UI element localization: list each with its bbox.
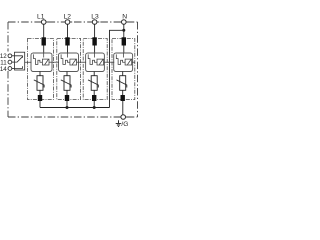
- enclosure border left: [7, 22, 9, 52]
- wire module 4 box to varistor: [122, 72, 124, 76]
- wire varistor 4 to terminal: [122, 90, 124, 95]
- terminal contact bottom module 2: [65, 95, 69, 101]
- wire module 1 to bus: [39, 101, 41, 108]
- wire module 1 box to varistor: [39, 72, 41, 76]
- SPD module box 4: [114, 53, 133, 72]
- wire module 1 box to outline right: [49, 61, 59, 63]
- varistor icon module 4: [125, 59, 132, 65]
- terminal L1: [39, 21, 48, 23]
- wire 11 to FM box: [12, 61, 15, 63]
- wire module 2 box to varistor: [66, 72, 68, 76]
- wire module 4 box to outline right: [132, 61, 135, 63]
- terminal contact bottom module 3: [92, 95, 96, 101]
- wire module 3 box to varistor: [93, 72, 95, 76]
- wire L2 drop: [67, 24, 69, 53]
- terminal contact top module 1: [42, 37, 46, 45]
- varistor icon module 1: [42, 59, 49, 65]
- varistor icon module 2: [70, 59, 77, 65]
- wire module 4 to ground terminal: [122, 101, 124, 115]
- wire L3 drop: [94, 24, 96, 53]
- SPD module box 2: [59, 53, 79, 72]
- enclosure border bottom: [8, 116, 138, 118]
- SPD module box 3: [86, 53, 105, 72]
- wire 12 to FM box: [12, 55, 15, 57]
- terminal contact top module 4: [122, 37, 126, 45]
- wire varistor 3 to terminal: [93, 90, 95, 95]
- terminal L2: [63, 21, 72, 23]
- wire varistor 2 to terminal: [66, 90, 68, 95]
- terminal contact bottom module 1: [38, 95, 42, 101]
- disconnector symbol module 3: [88, 53, 97, 64]
- module outline 1: [28, 39, 54, 100]
- module outline 3: [83, 39, 107, 100]
- module outline 2: [57, 39, 81, 100]
- node bus module 2: [66, 106, 69, 109]
- SPD module box 1: [31, 53, 52, 72]
- svg-text:14: 14: [0, 66, 7, 73]
- FM changeover contact: [15, 56, 23, 69]
- terminal contact top module 3: [92, 37, 96, 45]
- wire L1 drop: [43, 24, 45, 53]
- wire N drop: [123, 24, 125, 53]
- module outline 4: [112, 39, 135, 100]
- varistor V3: [91, 76, 97, 91]
- wire bottom bus: [40, 107, 110, 109]
- wire module 2 box to outline right: [77, 61, 87, 63]
- ground symbol: [116, 120, 122, 126]
- varistor V2: [64, 76, 70, 91]
- node N junction: [122, 29, 125, 32]
- terminal L3: [90, 21, 99, 23]
- terminal PE ground: [119, 116, 128, 118]
- varistor V4: [120, 76, 126, 91]
- wire varistor 1 to terminal: [39, 90, 41, 95]
- terminal contact top module 2: [65, 37, 69, 45]
- FM remote contact box: [15, 52, 25, 70]
- disconnector symbol module 2: [61, 53, 70, 64]
- wire module 3 to bus: [93, 101, 95, 108]
- node bus module 3: [93, 106, 96, 109]
- svg-text:/G: /G: [121, 121, 128, 128]
- terminal contact bottom module 4: [121, 95, 125, 101]
- terminal N: [119, 21, 128, 23]
- enclosure border right: [137, 22, 139, 117]
- varistor V1: [37, 76, 43, 91]
- wire 14 to FM box: [12, 68, 15, 70]
- wire module 2 to bus: [66, 101, 68, 108]
- disconnector symbol module 4: [116, 53, 125, 64]
- disconnector symbol module 1: [25, 53, 44, 64]
- wire module 3 box to outline right: [104, 61, 115, 63]
- enclosure border top: [8, 21, 138, 23]
- varistor icon module 3: [97, 59, 104, 65]
- wire N to L-bus branch: [110, 30, 124, 107]
